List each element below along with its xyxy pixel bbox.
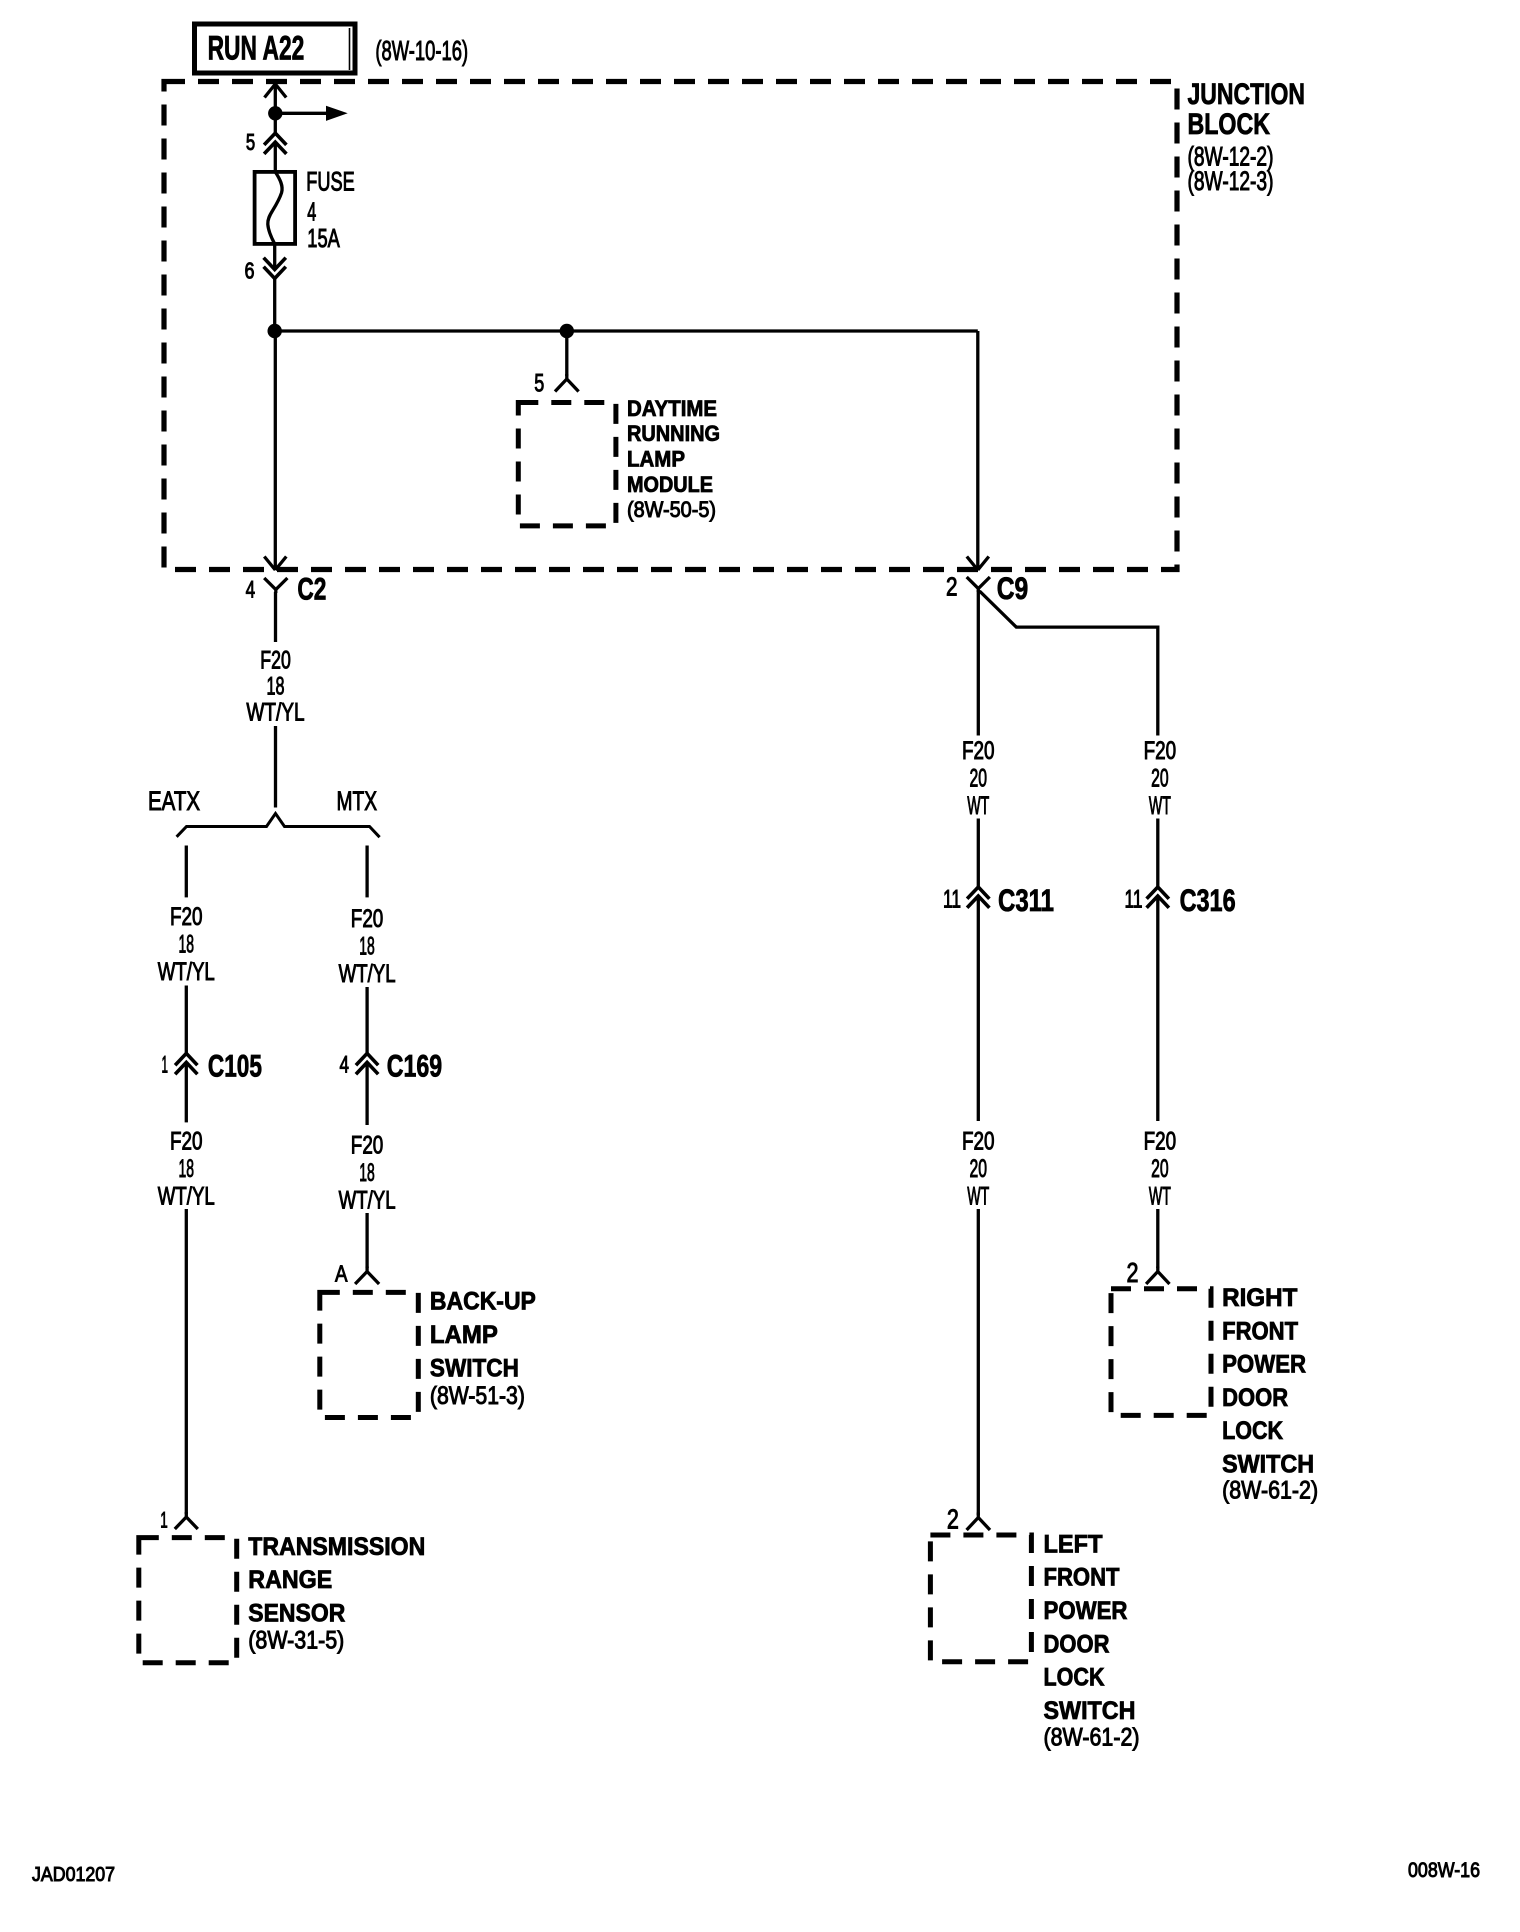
svg-text:BLOCK: BLOCK xyxy=(1188,108,1271,141)
wire C9 diagonal to right column xyxy=(980,591,1158,736)
connector C2 female terminal xyxy=(264,578,287,593)
svg-text:C105: C105 xyxy=(208,1048,262,1084)
svg-text:WT/YL: WT/YL xyxy=(339,1187,396,1215)
svg-text:RANGE: RANGE xyxy=(248,1566,332,1594)
connector C9 female terminal xyxy=(967,577,990,592)
svg-text:WT/YL: WT/YL xyxy=(339,960,396,988)
svg-text:008W-16: 008W-16 xyxy=(1408,1859,1480,1882)
svg-text:BACK-UP: BACK-UP xyxy=(430,1288,536,1316)
svg-text:(8W-31-5): (8W-31-5) xyxy=(248,1627,344,1655)
svg-text:RUN A22: RUN A22 xyxy=(208,30,305,68)
arrow up at junction block boundary xyxy=(265,84,287,98)
transmission range sensor dashed box xyxy=(139,1538,237,1663)
svg-text:SENSOR: SENSOR xyxy=(248,1599,345,1627)
svg-text:FUSE: FUSE xyxy=(306,167,354,197)
svg-text:6: 6 xyxy=(245,258,255,284)
svg-text:18: 18 xyxy=(359,933,375,961)
svg-text:11: 11 xyxy=(1125,886,1143,914)
svg-text:DAYTIME: DAYTIME xyxy=(627,396,717,421)
wire C316 long run xyxy=(1156,897,1159,1121)
svg-text:SWITCH: SWITCH xyxy=(1044,1697,1136,1725)
wire C2 to label xyxy=(274,592,277,642)
right front power door lock switch dashed box xyxy=(1111,1289,1211,1416)
wire to C316 xyxy=(1156,819,1159,888)
svg-text:15A: 15A xyxy=(307,223,340,253)
wire chevron5 to fuse xyxy=(274,143,277,172)
svg-text:RUNNING: RUNNING xyxy=(627,421,720,446)
svg-text:LAMP: LAMP xyxy=(430,1321,498,1349)
svg-text:WT/YL: WT/YL xyxy=(158,958,215,986)
svg-text:F20: F20 xyxy=(351,905,384,933)
terminal Y into left front switch xyxy=(967,1513,990,1531)
terminal Y into right front switch xyxy=(1146,1267,1169,1285)
fuse 4 15A body xyxy=(255,172,296,244)
svg-text:WT/YL: WT/YL xyxy=(158,1183,215,1211)
svg-text:20: 20 xyxy=(970,765,988,793)
wire chevron6 to junction node xyxy=(273,278,276,332)
svg-text:MODULE: MODULE xyxy=(627,472,713,497)
svg-text:18: 18 xyxy=(179,930,195,958)
wire DRL tap down xyxy=(565,331,568,376)
svg-text:C316: C316 xyxy=(1180,882,1236,918)
svg-text:JUNCTION: JUNCTION xyxy=(1188,78,1306,111)
svg-text:RIGHT: RIGHT xyxy=(1222,1284,1297,1312)
wire EATX to C105 xyxy=(185,986,188,1054)
wire bus down to C9 xyxy=(976,331,979,568)
in-line connector C105 chevrons xyxy=(175,1053,197,1074)
svg-text:1: 1 xyxy=(160,1508,168,1533)
svg-text:(8W-61-2): (8W-61-2) xyxy=(1222,1477,1318,1505)
node dot at DRL tap xyxy=(560,324,574,338)
svg-text:F20: F20 xyxy=(170,903,203,931)
in-line connector C169 chevrons xyxy=(356,1053,378,1074)
junction block dashed boundary xyxy=(164,82,1177,570)
wire to left front door lock switch xyxy=(977,1209,980,1515)
terminal Y into DRL module xyxy=(555,374,579,392)
in-line connector C316 chevrons xyxy=(1147,887,1169,908)
svg-text:WT: WT xyxy=(1149,1183,1171,1211)
svg-text:FRONT: FRONT xyxy=(1044,1564,1120,1592)
svg-text:18: 18 xyxy=(179,1155,195,1183)
svg-text:(8W-50-5): (8W-50-5) xyxy=(627,497,716,522)
svg-text:20: 20 xyxy=(1151,765,1169,793)
svg-text:FRONT: FRONT xyxy=(1222,1317,1298,1345)
wire C2 drop inside junction block xyxy=(274,331,277,568)
svg-text:C2: C2 xyxy=(297,571,326,607)
wire EATX branch upper xyxy=(185,846,188,898)
wire EATX long run to TRS xyxy=(185,1209,188,1514)
arrow down at C2 boundary xyxy=(264,557,286,571)
wire MTX to back-up lamp switch xyxy=(365,1213,368,1268)
arrow right (feed continues) xyxy=(326,106,348,121)
svg-text:EATX: EATX xyxy=(148,786,200,816)
svg-text:2: 2 xyxy=(947,1504,959,1535)
wire from RUN A22 down to fuse xyxy=(274,85,277,133)
wire MTX to C169 xyxy=(365,987,368,1053)
svg-text:2: 2 xyxy=(946,572,958,602)
svg-text:LOCK: LOCK xyxy=(1222,1417,1283,1445)
svg-text:F20: F20 xyxy=(962,737,995,765)
node dot at bus split xyxy=(268,324,282,338)
svg-text:(8W-12-3): (8W-12-3) xyxy=(1188,166,1274,196)
svg-text:TRANSMISSION: TRANSMISSION xyxy=(248,1533,425,1561)
svg-text:LOCK: LOCK xyxy=(1044,1664,1105,1692)
svg-text:C169: C169 xyxy=(387,1048,442,1084)
brace split EATX/MTX xyxy=(177,814,380,838)
svg-text:F20: F20 xyxy=(962,1128,995,1156)
svg-text:11: 11 xyxy=(943,886,961,914)
daytime running lamp module dashed box xyxy=(518,403,616,526)
terminal Y into TRS xyxy=(175,1512,198,1529)
switch output box RUN A22 xyxy=(195,24,356,73)
svg-text:(8W-10-16): (8W-10-16) xyxy=(375,35,468,66)
svg-text:C311: C311 xyxy=(998,882,1054,918)
svg-text:1: 1 xyxy=(162,1052,169,1079)
wire horizontal to right arrow xyxy=(275,112,327,115)
svg-text:4: 4 xyxy=(307,197,316,227)
svg-text:LEFT: LEFT xyxy=(1044,1530,1103,1558)
svg-text:18: 18 xyxy=(267,673,285,701)
svg-text:DOOR: DOOR xyxy=(1044,1630,1110,1658)
wire label to brace xyxy=(274,726,277,808)
wire C169 down xyxy=(365,1063,368,1125)
svg-text:20: 20 xyxy=(970,1155,988,1183)
wire C311 long run xyxy=(977,897,980,1121)
svg-text:POWER: POWER xyxy=(1222,1351,1306,1379)
svg-text:F20: F20 xyxy=(170,1128,203,1156)
svg-text:20: 20 xyxy=(1151,1155,1169,1183)
svg-text:SWITCH: SWITCH xyxy=(430,1354,519,1382)
svg-text:WT: WT xyxy=(1149,792,1171,820)
wire bus horizontal to C9 drop xyxy=(275,329,978,332)
svg-text:C9: C9 xyxy=(997,570,1028,606)
svg-text:POWER: POWER xyxy=(1044,1597,1128,1625)
svg-text:JAD01207: JAD01207 xyxy=(32,1864,115,1886)
in-line connector chevrons pin 5 xyxy=(264,133,286,154)
svg-text:DOOR: DOOR xyxy=(1222,1384,1288,1412)
fuse element squiggle xyxy=(268,172,282,244)
arrow down at C9 boundary xyxy=(967,557,989,571)
back-up lamp switch dashed box xyxy=(320,1292,419,1417)
wire MTX branch upper xyxy=(365,846,368,898)
svg-text:4: 4 xyxy=(340,1052,350,1079)
in-line connector chevrons pin 6 (down) xyxy=(264,258,286,279)
svg-text:(8W-61-2): (8W-61-2) xyxy=(1044,1724,1140,1752)
svg-text:F20: F20 xyxy=(260,647,291,675)
wire C105 down xyxy=(185,1063,188,1122)
svg-text:5: 5 xyxy=(534,370,544,398)
svg-text:5: 5 xyxy=(246,129,255,155)
left front power door lock switch dashed box xyxy=(930,1535,1031,1662)
node dot below RUN A22 xyxy=(268,106,282,120)
wire C9 down left column xyxy=(977,590,980,736)
svg-text:A: A xyxy=(335,1261,348,1287)
in-line connector C311 chevrons xyxy=(967,887,989,908)
terminal Y into back-up lamp switch xyxy=(355,1267,379,1285)
svg-text:F20: F20 xyxy=(1144,737,1177,765)
svg-text:F20: F20 xyxy=(351,1132,384,1160)
svg-text:4: 4 xyxy=(246,577,256,604)
wire to right front door lock switch xyxy=(1156,1209,1159,1268)
svg-text:SWITCH: SWITCH xyxy=(1222,1451,1314,1479)
wire to C311 xyxy=(977,819,980,888)
svg-text:WT: WT xyxy=(967,1183,989,1211)
svg-text:18: 18 xyxy=(359,1159,375,1187)
svg-text:MTX: MTX xyxy=(337,786,378,816)
svg-text:F20: F20 xyxy=(1144,1128,1177,1156)
svg-text:LAMP: LAMP xyxy=(627,447,685,472)
svg-text:2: 2 xyxy=(1127,1257,1139,1288)
svg-text:WT/YL: WT/YL xyxy=(246,699,304,727)
svg-text:(8W-51-3): (8W-51-3) xyxy=(430,1382,525,1410)
svg-text:WT: WT xyxy=(967,792,989,820)
